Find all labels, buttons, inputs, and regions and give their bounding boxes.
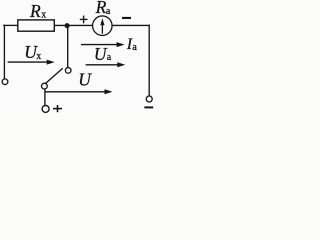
svg-text:R: R bbox=[29, 1, 41, 21]
plus sign at ammeter left bbox=[80, 16, 88, 24]
terminal right (minus) bbox=[146, 96, 152, 102]
wire right vertical bbox=[148, 25, 150, 95]
terminal left (open) bbox=[2, 79, 8, 85]
arrow Ia bbox=[81, 44, 118, 46]
terminal plus (bottom) bbox=[42, 105, 49, 112]
svg-text:x: x bbox=[36, 51, 41, 62]
minus sign at ammeter right bbox=[122, 17, 131, 19]
wire ammeter to top-right corner bbox=[112, 24, 149, 26]
plus sign bottom bbox=[53, 105, 62, 112]
svg-text:а: а bbox=[106, 6, 111, 17]
switch S blade bbox=[45, 68, 62, 83]
ammeter needle arrow bbox=[101, 24, 103, 34]
svg-text:U: U bbox=[78, 69, 92, 89]
minus sign bottom right bbox=[144, 106, 153, 108]
wire top-left horizontal bbox=[4, 24, 18, 26]
wire switch to plus terminal vertical bbox=[44, 89, 46, 106]
switch S lower contact bbox=[42, 83, 48, 89]
node junction dot bbox=[65, 23, 70, 28]
svg-text:а: а bbox=[132, 42, 137, 53]
switch S upper contact bbox=[65, 68, 71, 74]
arrow U bbox=[45, 91, 105, 93]
wire left vertical bbox=[3, 25, 5, 78]
svg-text:R: R bbox=[95, 0, 107, 17]
arrow Ua bbox=[86, 64, 118, 66]
wire junction branch vertical bbox=[67, 25, 69, 67]
svg-text:а: а bbox=[107, 52, 112, 63]
ammeter PA circle bbox=[93, 16, 113, 36]
wire resistor to ammeter bbox=[54, 24, 92, 26]
arrow Ux bbox=[8, 61, 47, 63]
svg-text:x: x bbox=[41, 10, 46, 21]
resistor Rx box bbox=[18, 20, 55, 31]
